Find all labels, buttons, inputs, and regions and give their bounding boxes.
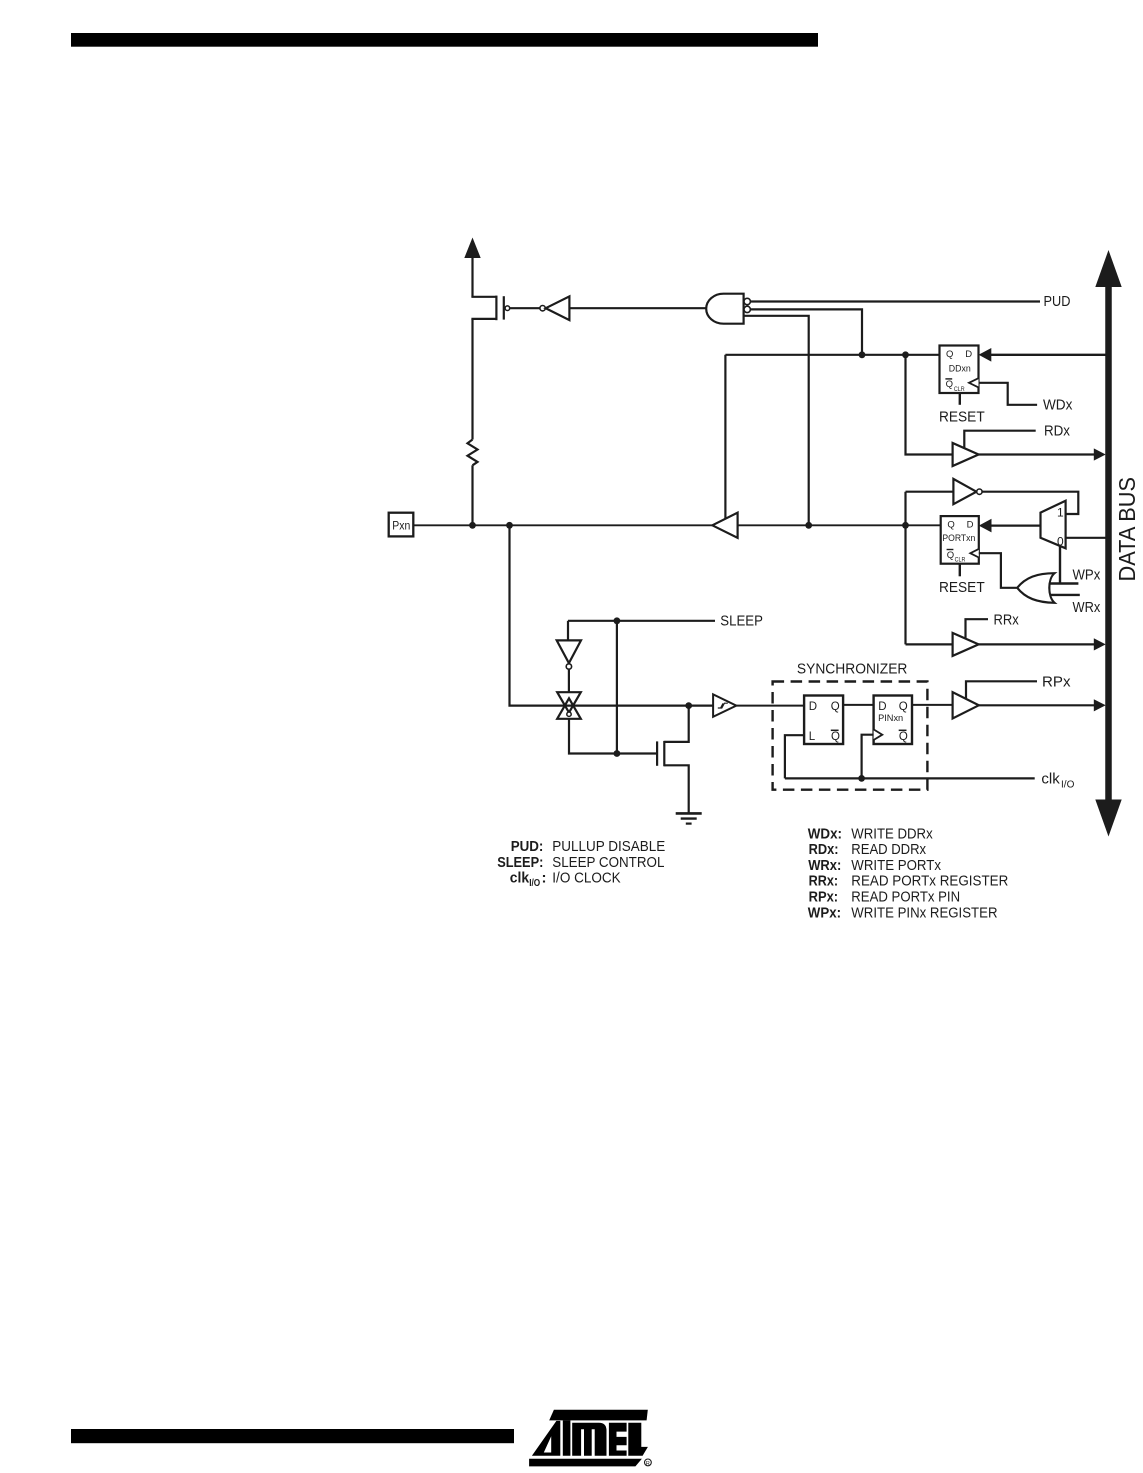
logo letter M (572, 1423, 606, 1456)
svg-text:DATA BUS: DATA BUS (1114, 477, 1140, 582)
latch U14 (first sync stage) (804, 696, 843, 745)
wire: buffer U10 to bus (979, 643, 1096, 645)
svg-text:Q: Q (946, 349, 953, 360)
wire: latch Q to PINxn D (843, 704, 874, 706)
svg-text:WRITE PORTx: WRITE PORTx (851, 857, 941, 874)
wire: PUD line (751, 300, 1041, 302)
svg-text:Pxn: Pxn (392, 521, 410, 533)
svg-text:Q: Q (831, 731, 840, 743)
or-gate U9 (write clock) (1017, 573, 1054, 603)
node: junction feedback (902, 522, 909, 529)
logo letter E (609, 1423, 627, 1456)
svg-text:RESET: RESET (939, 410, 985, 426)
svg-text:L: L (809, 731, 816, 743)
svg-text:RDx:: RDx: (809, 841, 839, 858)
wire: RESET stub DDxn (959, 393, 961, 405)
transistor Q1 (pullup PMOS) (471, 296, 509, 321)
svg-text:1: 1 (1057, 506, 1064, 520)
wire: clk to PINxn clock (862, 735, 874, 779)
svg-text:R: R (646, 1461, 650, 1467)
synchronizer dashed box (773, 682, 928, 790)
arrowhead to bus (RDx) (1094, 448, 1106, 460)
DATA BUS bottom arrow (1095, 800, 1121, 837)
wire: NAND input 2 to DDxn Q (751, 309, 863, 354)
bottom footer bar (71, 1429, 514, 1443)
logo letter T stem (563, 1420, 571, 1455)
node: SLEEP junction (614, 617, 621, 624)
svg-text:D: D (809, 701, 817, 713)
wire: latch L enable (785, 735, 804, 778)
svg-text:RRx: RRx (994, 612, 1020, 628)
svg-text:RPx:: RPx: (809, 889, 839, 906)
wire: Q1 gate to inverter (510, 307, 540, 309)
mux U8 (1041, 501, 1066, 549)
svg-text:PULLUP DISABLE: PULLUP DISABLE (552, 838, 665, 855)
svg-text:PINxn: PINxn (878, 713, 903, 723)
node: junction NAND input3 (805, 522, 812, 529)
wire: buffer U16 to bus (979, 704, 1096, 706)
svg-text:Q: Q (899, 701, 908, 713)
svg-text:WRx: WRx (1073, 600, 1101, 616)
svg-text:SLEEP: SLEEP (720, 614, 763, 630)
legend left (497, 838, 665, 889)
logo (R) mark (645, 1459, 652, 1467)
wire: schmitt output to synchronizer (736, 705, 804, 707)
wire: PORTxn Q run to pin driver (738, 524, 941, 526)
svg-text:WRx:: WRx: (808, 857, 841, 874)
svg-text:PUD: PUD (1044, 294, 1071, 310)
DATA BUS top arrow (1095, 250, 1121, 287)
wire: PORTxn clock path from OR gate (979, 553, 1017, 588)
wire: RESET stub PORTxn (959, 564, 961, 577)
svg-text:SYNCHRONIZER: SYNCHRONIZER (797, 662, 908, 678)
svg-text:clk: clk (1041, 771, 1060, 787)
svg-text:I/O: I/O (529, 877, 540, 889)
wire: mux input 0 from bus (1066, 537, 1106, 539)
pin driver U3 (triangle pointing left) (712, 513, 737, 538)
wire: RRx buffer input (906, 643, 953, 645)
wire: VCC stem (471, 255, 473, 297)
svg-text:RDx: RDx (1044, 424, 1071, 440)
node: junction on Q run (859, 351, 866, 358)
wire: mux select to WPx (1059, 546, 1061, 584)
svg-text:clk: clk (510, 870, 530, 887)
svg-text:D: D (878, 701, 886, 713)
legend right (808, 825, 1009, 921)
svg-text:READ DDRx: READ DDRx (851, 841, 926, 858)
buffer U5 (read DDRx) (953, 443, 979, 466)
wire: WDx clock line (979, 383, 1038, 405)
svg-text:RPx: RPx (1042, 675, 1071, 691)
svg-text:RESET: RESET (939, 580, 985, 596)
wire: inverter to pass gate (568, 669, 570, 691)
clock pin wedge (874, 729, 883, 740)
inverter U11 (sleep, pointing down) (557, 640, 581, 663)
wire: output-enable drop to pin driver (724, 355, 726, 520)
arrowhead to bus (RPx) (1094, 699, 1106, 711)
inverter U1 (drives pullup gate) (540, 296, 570, 320)
Atmel logo (529, 1410, 648, 1467)
svg-text:D: D (965, 349, 972, 360)
svg-text:D: D (967, 520, 974, 531)
wire: pass gate lower control (569, 719, 657, 754)
logo letter L (628, 1423, 648, 1456)
wire: input path vertical from Pxn (510, 525, 714, 705)
svg-text:PORTxn: PORTxn (942, 533, 975, 543)
top header bar (71, 33, 818, 47)
arrowhead into PORTxn D (979, 519, 992, 533)
wire: inverter to NAND output (569, 307, 706, 309)
svg-text:WPx:: WPx: (808, 904, 841, 921)
wire: D input of DDxn from data bus (989, 354, 1106, 356)
svg-text:Q: Q (946, 379, 953, 390)
flip-flop U15 PINxn (874, 696, 912, 745)
wire: RDx buffer input (906, 355, 953, 455)
node: clk junction (858, 775, 865, 782)
svg-text:DDxn: DDxn (949, 363, 971, 373)
svg-text:SLEEP CONTROL: SLEEP CONTROL (552, 854, 664, 871)
wire: clk I/O line (785, 777, 1035, 779)
svg-text:I/O: I/O (1061, 780, 1075, 791)
svg-text:CLR: CLR (954, 386, 965, 393)
NAND input bubble middle (744, 306, 750, 312)
clock pin wedge (969, 378, 979, 387)
buffer U16 (read pin) (953, 692, 979, 718)
inverter U6 (PORTxn to mux 1) (953, 479, 976, 504)
node: gate junction (614, 750, 621, 757)
transmission gate U12 (bowtie) (557, 692, 581, 719)
svg-text:WRITE DDRx: WRITE DDRx (851, 825, 933, 842)
wire: PINxn Q to RPx buffer (912, 704, 953, 706)
wire: SLEEP line (568, 620, 715, 622)
wire: mux output to PORTxn D (989, 524, 1041, 526)
wire: inverter U6 output to mux input 1 (982, 492, 1078, 514)
svg-text:READ PORTx PIN: READ PORTx PIN (851, 889, 960, 906)
svg-text:WPx: WPx (1073, 568, 1101, 584)
wire: NAND input 3 down to Pxn line (744, 316, 809, 526)
wire: feedback vertical (inverter in / Q / RRx in) (904, 492, 906, 645)
svg-text:SLEEP:: SLEEP: (497, 854, 543, 871)
node: input-path junction (506, 522, 513, 529)
svg-text:RRx:: RRx: (809, 873, 839, 890)
Pxn pad box (389, 513, 414, 537)
node: junction at schmitt input (685, 702, 692, 709)
schmitt trigger U13 (713, 694, 736, 716)
logo bottom bar (529, 1459, 642, 1467)
wire: buffer U5 to bus (979, 453, 1096, 455)
svg-text:I/O CLOCK: I/O CLOCK (552, 870, 620, 887)
flip-flop U7 PORTxn (941, 516, 979, 564)
wire: RRx line (966, 619, 989, 638)
svg-text:Q: Q (831, 701, 840, 713)
clock pin wedge (970, 549, 979, 558)
svg-text:CLR: CLR (955, 556, 966, 563)
svg-text:WDx:: WDx: (808, 825, 842, 842)
flip-flop U4 DDxn (940, 346, 979, 394)
DATA BUS line (1105, 283, 1112, 801)
svg-text:PUD:: PUD: (511, 838, 544, 855)
svg-text:Q: Q (947, 550, 954, 561)
logo top bar (549, 1410, 648, 1421)
arrowhead into DDxn D (979, 348, 992, 362)
svg-text:Q: Q (899, 731, 908, 743)
transistor Q2 (clamp NMOS) (657, 706, 689, 814)
svg-text::: : (542, 870, 547, 887)
buffer U10 (read PORTx register) (953, 633, 979, 656)
node: pullup junction (469, 522, 476, 529)
wire: SLEEP to NMOS gate (616, 621, 618, 754)
VCC arrow (464, 238, 480, 259)
ground (676, 813, 702, 823)
svg-text:WDx: WDx (1043, 398, 1073, 414)
wire: SLEEP to inverter (567, 621, 569, 641)
wire: RDx line (964, 431, 1035, 449)
svg-text:WRITE PINx REGISTER: WRITE PINx REGISTER (851, 904, 997, 921)
wire: inverter U6 input (906, 491, 954, 493)
resistor R1 (pullup) (468, 319, 478, 525)
logo letter A (532, 1421, 560, 1456)
svg-text:READ PORTx REGISTER: READ PORTx REGISTER (851, 873, 1008, 890)
wire: WPx input (1050, 582, 1079, 584)
svg-text:Q: Q (947, 520, 954, 531)
wire: Pxn line (413, 524, 712, 526)
NAND gate U2 (mirrored, inputs right) (706, 294, 743, 324)
node: junction on Q run 2 (902, 351, 909, 358)
arrowhead to bus (RRx) (1094, 638, 1106, 650)
wire: DDxn Q horizontal run (725, 354, 939, 356)
wire: RPx line (966, 681, 1037, 698)
wire: WRx input (1050, 594, 1080, 596)
NAND input bubble top (744, 298, 750, 304)
